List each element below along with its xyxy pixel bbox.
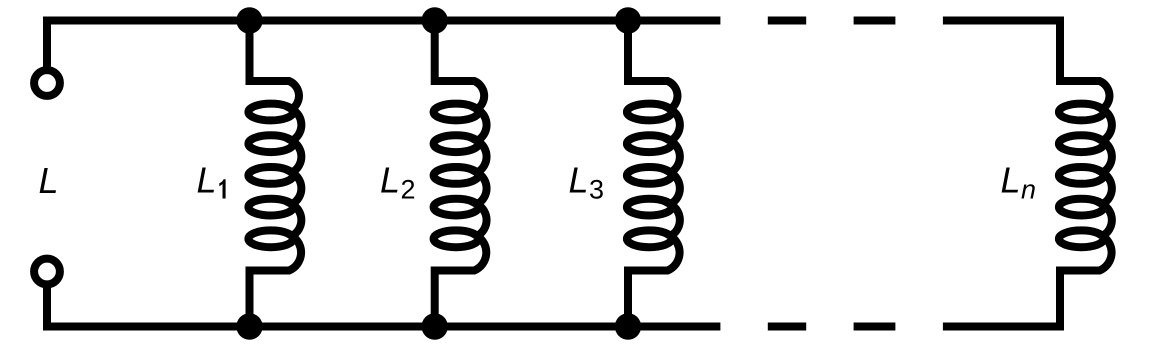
svg-text:3: 3: [589, 175, 604, 205]
svg-text:L: L: [569, 160, 589, 201]
svg-text:L: L: [380, 160, 400, 201]
svg-text:L: L: [1001, 160, 1021, 201]
svg-text:L: L: [197, 160, 217, 201]
svg-text:L: L: [39, 160, 59, 201]
svg-text:n: n: [1021, 175, 1036, 205]
svg-text:2: 2: [401, 175, 416, 205]
